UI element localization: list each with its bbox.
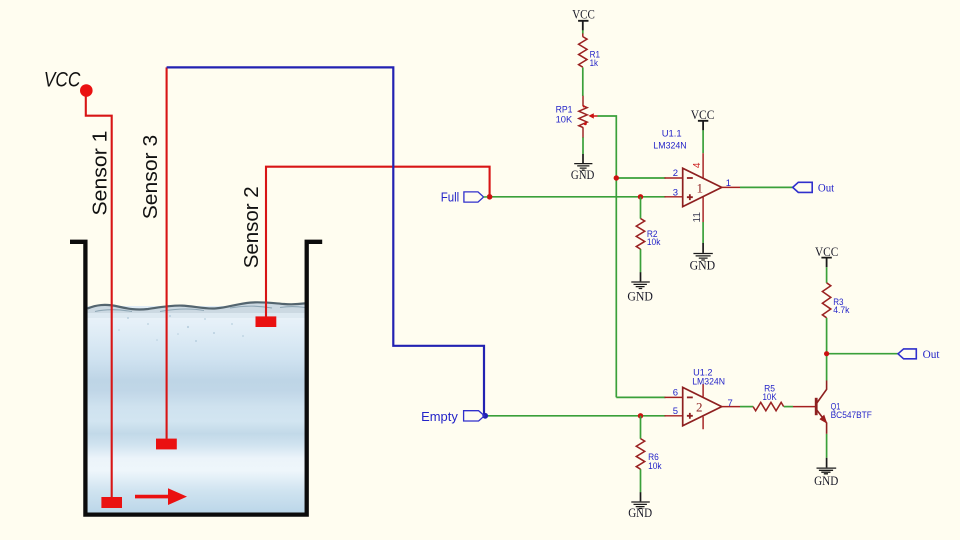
svg-text:Out: Out [818,180,835,194]
wire pin7 to R5 [740,406,753,408]
svg-text:11: 11 [692,212,703,223]
sensor 1 tip [101,497,122,508]
potentiometer RP1 [579,96,598,138]
svg-text:Empty: Empty [421,409,458,424]
svg-text:4: 4 [692,162,703,168]
op-amp U1.2 [683,384,722,429]
svg-text:10K: 10K [763,392,778,403]
Q1 base stub [793,406,815,408]
svg-text:10K: 10K [556,114,573,125]
pin 3 stub [665,196,684,198]
svg-text:Sensor 1: Sensor 1 [90,131,112,216]
junction Empty (blue) [482,413,488,419]
wire R5 to Q1 base [784,406,793,408]
ground GND4 [628,492,652,520]
pin 1 stub [722,186,740,188]
wire junction to Out2 [827,353,898,355]
svg-text:GND: GND [814,474,838,488]
pin 5 stub [665,415,684,417]
wire pin11 to GND [702,222,704,243]
svg-text:GND: GND [627,289,653,304]
svg-text:Out: Out [923,347,941,361]
sensor 3 tip [156,439,177,450]
sensor 1 wire [86,95,112,497]
svg-text:Sensor 3: Sensor 3 [140,135,162,220]
flow arrow [135,488,187,505]
wire pin2 row [616,177,665,179]
port Out 1 [793,180,835,194]
blue wire sensor3 to Empty [167,67,484,415]
junction Full [487,194,493,200]
svg-text:1: 1 [726,178,731,189]
junction R6 top [638,413,643,418]
svg-text:1: 1 [697,181,704,196]
pin 11 stub [702,197,704,222]
sensor 2 tip [256,316,277,327]
svg-text:7: 7 [728,398,733,409]
svg-text:GND: GND [571,167,595,182]
wire R6 column [640,416,642,493]
wire wiper to pin2 column [598,116,617,397]
resistor R5 [753,402,784,410]
tank [70,242,322,515]
wire emitter to GND [826,434,828,458]
ground GND3 [690,243,716,273]
op-amp U1.1 [683,168,722,206]
svg-text:10k: 10k [648,461,662,472]
svg-text:VCC: VCC [691,108,715,122]
svg-text:LM324N: LM324N [653,140,687,151]
ground GND5 [814,458,838,488]
pin 6 stub [665,396,684,398]
R1 top pin stub [582,33,584,36]
sensor 2 wire [266,167,490,317]
wire VCC3 to R3 [826,267,828,283]
resistor R6 [636,439,644,470]
svg-text:5: 5 [673,406,678,417]
pin 7 stub [722,406,740,408]
svg-text:Full: Full [441,190,460,205]
water [88,302,306,512]
wire R2 column [640,197,642,273]
wire pin6 row [616,396,665,398]
resistor R2 [636,219,644,250]
wire VCC1 column [582,30,584,154]
pin 2 stub [665,177,684,179]
wire VCC2 to pin4 [702,130,704,153]
VCC supply symbol 2 [691,108,715,130]
port Full [441,190,488,205]
wire R3 to junction [826,318,828,354]
wire Empty to pin5 row [486,415,666,417]
svg-text:BC547BTF: BC547BTF [831,410,872,421]
VCC supply dot [80,84,93,97]
resistor R3 [822,283,830,318]
sensor 3 wire [166,67,168,438]
svg-text:1k: 1k [590,58,599,69]
svg-text:GND: GND [690,258,716,273]
wire junction to collector [826,354,828,381]
svg-text:VCC: VCC [572,8,595,22]
junction R2 top [638,194,643,199]
svg-text:GND: GND [628,506,652,520]
svg-text:2: 2 [673,168,678,179]
ground GND1 [571,154,595,182]
svg-text:Sensor 2: Sensor 2 [241,186,263,268]
port Out 2 [898,347,940,361]
svg-text:2: 2 [696,400,703,415]
svg-text:LM324N: LM324N [692,376,725,387]
wire Full to pin3 row [492,196,666,198]
svg-text:VCC: VCC [44,68,81,91]
svg-text:10k: 10k [647,237,661,248]
VCC supply symbol 3 [815,245,838,267]
VCC supply symbol 1 [572,8,595,31]
transistor Q1 [816,381,827,434]
junction R3/Out [824,351,829,356]
ground GND2 [627,272,653,303]
pin 4 stub [702,153,704,178]
junction wiper/pin2 [614,175,619,180]
svg-text:4.7k: 4.7k [833,305,850,316]
resistor R1 [579,37,587,68]
wire pin1 to Out [740,186,793,188]
svg-text:U1.1: U1.1 [662,129,682,140]
svg-text:3: 3 [673,187,678,198]
port Empty [421,409,484,424]
svg-text:6: 6 [673,388,678,399]
